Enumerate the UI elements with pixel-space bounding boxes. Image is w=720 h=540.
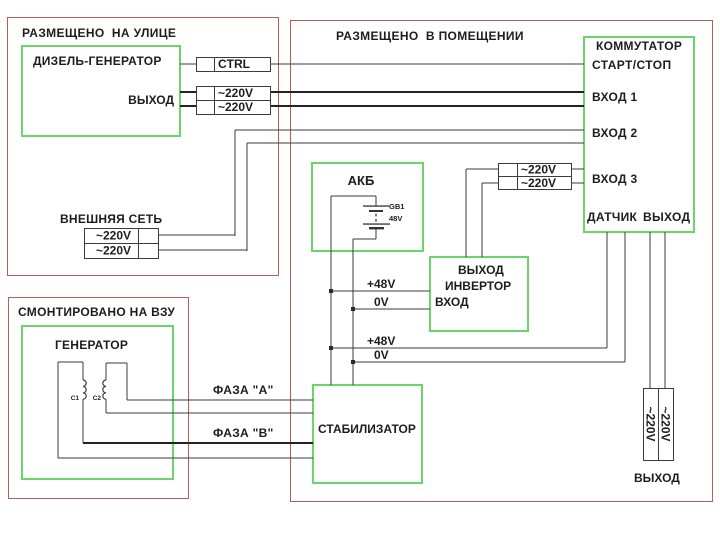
svg-text:~220V: ~220V [96,229,131,243]
svg-text:ФАЗА "А": ФАЗА "А" [213,383,274,397]
svg-text:~220V: ~220V [644,406,658,441]
svg-text:ДАТЧИК: ДАТЧИК [587,210,638,224]
svg-text:CTRL: CTRL [218,57,250,71]
svg-text:GB1: GB1 [389,202,404,211]
svg-text:48V: 48V [389,214,402,223]
svg-text:ИНВЕРТОР: ИНВЕРТОР [445,279,511,293]
svg-text:ДИЗЕЛЬ-ГЕНЕРАТОР: ДИЗЕЛЬ-ГЕНЕРАТОР [33,54,162,68]
svg-text:РАЗМЕЩЕНО В ПОМЕЩЕНИИ: РАЗМЕЩЕНО В ПОМЕЩЕНИИ [336,29,524,43]
svg-text:КОММУТАТОР: КОММУТАТОР [596,39,682,53]
svg-text:+48V: +48V [367,334,395,348]
svg-text:0V: 0V [374,295,389,309]
svg-text:СМОНТИРОВАНО НА ВЗУ: СМОНТИРОВАНО НА ВЗУ [18,305,175,319]
svg-text:РАЗМЕЩЕНО НА УЛИЦЕ: РАЗМЕЩЕНО НА УЛИЦЕ [22,26,176,40]
svg-text:ВЫХОД: ВЫХОД [128,93,174,107]
svg-text:С1: С1 [71,395,80,402]
svg-text:~220V: ~220V [521,176,556,190]
svg-text:ВНЕШНЯЯ СЕТЬ: ВНЕШНЯЯ СЕТЬ [60,212,162,226]
svg-text:ВЫХОД: ВЫХОД [458,263,504,277]
svg-text:СТАБИЛИЗАТОР: СТАБИЛИЗАТОР [318,422,416,436]
svg-text:~220V: ~220V [521,163,556,177]
svg-text:ВХОД 2: ВХОД 2 [592,126,637,140]
svg-text:0V: 0V [374,348,389,362]
svg-text:~220V: ~220V [218,86,253,100]
svg-text:~220V: ~220V [96,244,131,258]
svg-text:ФАЗА "В": ФАЗА "В" [213,426,274,440]
svg-text:~220V: ~220V [659,406,673,441]
svg-text:ВХОД 3: ВХОД 3 [592,172,637,186]
svg-text:ВХОД 1: ВХОД 1 [592,90,637,104]
svg-text:ВЫХОД: ВЫХОД [634,471,680,485]
svg-text:АКБ: АКБ [348,173,375,188]
svg-text:С2: С2 [93,395,102,402]
svg-text:~220V: ~220V [218,100,253,114]
svg-text:ВХОД: ВХОД [435,295,469,309]
svg-text:ГЕНЕРАТОР: ГЕНЕРАТОР [55,338,128,352]
svg-text:ВЫХОД: ВЫХОД [643,210,690,224]
svg-text:+48V: +48V [367,277,395,291]
svg-text:СТАРТ/СТОП: СТАРТ/СТОП [592,58,671,72]
